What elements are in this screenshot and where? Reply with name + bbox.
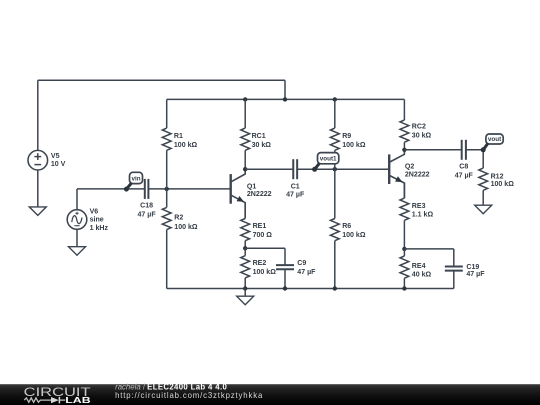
node junction VCC/RC1	[243, 97, 247, 101]
node junction RE1/RE2/C9	[243, 246, 247, 250]
ground below V5	[29, 207, 46, 216]
node flag vout	[481, 134, 503, 152]
svg-text:RC1: RC1	[252, 133, 266, 140]
svg-text:RE2: RE2	[253, 260, 267, 267]
node junction vout/R12	[481, 148, 485, 152]
node junction rail/RE4	[402, 286, 406, 290]
wire RE3 node to C19	[404, 248, 453, 250]
label V5 value	[51, 153, 66, 168]
svg-text:R2: R2	[174, 215, 183, 222]
branding bar	[0, 384, 540, 405]
svg-text:R9: R9	[342, 133, 351, 140]
wire C9 top lead	[284, 248, 286, 265]
resistor RC1	[241, 99, 250, 169]
svg-text:100 kΩ: 100 kΩ	[174, 224, 198, 231]
logo resistor zigzag	[24, 398, 51, 402]
node flag vout1	[312, 153, 339, 172]
svg-text:R1: R1	[174, 133, 183, 140]
svg-text:sine: sine	[90, 217, 104, 224]
svg-text:700 Ω: 700 Ω	[253, 232, 273, 239]
svg-text:47 µF: 47 µF	[297, 269, 316, 276]
wire bottom ground rail	[167, 288, 454, 290]
node junction R9/R6	[333, 167, 337, 171]
svg-text:RE4: RE4	[412, 263, 426, 270]
voltage source V5	[28, 150, 48, 170]
svg-text:V6: V6	[90, 208, 99, 215]
svg-text:30 kΩ: 30 kΩ	[412, 133, 432, 140]
svg-text:Q1: Q1	[247, 184, 256, 191]
wire top rail from V5 to drop	[38, 79, 285, 81]
resistor RC2	[400, 99, 409, 149]
svg-text:2N2222: 2N2222	[405, 172, 430, 179]
capacitor C9	[276, 265, 294, 269]
svg-text:100 kΩ: 100 kΩ	[491, 181, 515, 188]
resistor R12	[479, 150, 488, 205]
svg-text:vout1: vout1	[320, 156, 337, 163]
label RE3 value	[412, 203, 434, 219]
transistor Q1	[231, 169, 246, 218]
resistor R6	[330, 169, 339, 288]
credit line 1	[115, 382, 227, 391]
svg-text:100 kΩ: 100 kΩ	[253, 269, 277, 276]
resistor R2	[162, 189, 171, 289]
svg-text:V5: V5	[51, 153, 60, 160]
svg-text:RC2: RC2	[412, 124, 426, 131]
node junction rail/R6	[333, 286, 337, 290]
wire Q1 collector to C1	[245, 168, 293, 170]
ground main	[237, 296, 254, 305]
node junction RE3/RE4/C19	[402, 247, 406, 251]
label RC1 value	[252, 133, 272, 149]
node junction rail/C9	[283, 286, 287, 290]
node junction vin/R1/R2	[165, 187, 169, 191]
resistor RE2	[241, 248, 250, 288]
label R6 value	[342, 223, 366, 239]
wire C19 to ground rail	[453, 271, 455, 289]
wire top rail drop to VCC rail	[284, 80, 286, 99]
svg-text:vin: vin	[131, 175, 140, 182]
credit line 2	[115, 391, 263, 400]
label C8 value	[455, 164, 474, 180]
ground below V6	[69, 247, 86, 256]
wire C9 to ground rail	[284, 269, 286, 288]
resistor RE4	[400, 249, 409, 289]
voltage source V6	[67, 210, 87, 230]
svg-text:C9: C9	[297, 260, 306, 267]
node junction VCC/drop	[283, 97, 287, 101]
wire VCC rail	[167, 98, 405, 100]
svg-text:Q2: Q2	[405, 163, 414, 170]
svg-text:10 V: 10 V	[51, 161, 66, 168]
label C9 value	[297, 260, 316, 276]
node junction VCC/R9	[333, 97, 337, 101]
wire V5 to top rail	[37, 80, 39, 150]
wire V6 to ground	[76, 229, 78, 247]
label C18 value	[138, 202, 157, 218]
svg-text:C8: C8	[459, 164, 468, 171]
wire rail to main ground	[244, 289, 246, 297]
svg-text:C19: C19	[466, 264, 479, 271]
node junction rail/RE2	[243, 286, 247, 290]
logo LAB	[65, 396, 91, 405]
svg-text:100 kΩ: 100 kΩ	[342, 232, 366, 239]
label RE1 value	[253, 223, 273, 239]
svg-text:100 kΩ: 100 kΩ	[174, 142, 198, 149]
label R9 value	[342, 133, 366, 149]
label Q1 value	[247, 184, 272, 198]
svg-text:RE3: RE3	[412, 203, 426, 210]
wire C8 to vout node	[466, 149, 483, 151]
resistor R1	[162, 99, 171, 188]
label C1 value	[286, 184, 305, 199]
capacitor C1	[293, 159, 297, 179]
wire RE1 node to C9	[245, 247, 285, 249]
label R1 value	[174, 133, 198, 149]
svg-text:RE1: RE1	[253, 223, 267, 230]
wire C1 to Q2 base	[297, 168, 389, 170]
svg-text:http://circuitlab.com/c3ztkpzt: http://circuitlab.com/c3ztkpztyhkka	[115, 391, 263, 400]
label RC2 value	[412, 124, 432, 140]
label R12 value	[491, 174, 515, 189]
svg-text:C18: C18	[140, 202, 153, 209]
svg-text:47 µF: 47 µF	[286, 192, 305, 199]
wire V6 to input	[76, 189, 78, 210]
resistor R9	[330, 99, 339, 169]
label RE2 value	[253, 260, 277, 276]
capacitor C19	[445, 267, 463, 271]
svg-text:R6: R6	[342, 223, 351, 230]
svg-text:47 µF: 47 µF	[138, 211, 157, 218]
svg-text:100 kΩ: 100 kΩ	[342, 142, 366, 149]
node flag vin	[124, 172, 143, 191]
svg-text:47 µF: 47 µF	[455, 172, 474, 179]
wire V5 to ground	[37, 170, 39, 207]
svg-text:vout: vout	[488, 136, 502, 143]
logo diode	[51, 397, 65, 404]
svg-text:C1: C1	[291, 184, 300, 191]
resistor RE1	[241, 203, 250, 248]
svg-text:R12: R12	[491, 174, 504, 181]
label C19 value	[466, 264, 485, 278]
node junction Q1 collector	[243, 167, 247, 171]
wire V6 to C18	[77, 188, 145, 190]
wire Q2 collector to C8	[404, 149, 461, 151]
svg-text:1.1 kΩ: 1.1 kΩ	[412, 211, 434, 218]
label R2 value	[174, 215, 198, 231]
svg-text:1 kHz: 1 kHz	[90, 225, 109, 232]
svg-text:40 kΩ: 40 kΩ	[412, 271, 432, 278]
resistor RE3	[400, 183, 409, 249]
transistor Q2	[389, 150, 404, 198]
ground below R12	[475, 205, 492, 214]
svg-text:47 µF: 47 µF	[466, 271, 485, 278]
label RE4 value	[412, 263, 432, 278]
capacitor C8	[462, 140, 466, 160]
capacitor C18	[145, 179, 149, 199]
svg-text:2N2222: 2N2222	[247, 191, 272, 198]
label Q2 value	[405, 163, 430, 178]
svg-text:30 kΩ: 30 kΩ	[252, 142, 272, 149]
wire C18 to Q1 base	[148, 188, 230, 190]
label V6 value	[90, 208, 109, 231]
wire C19 top lead	[453, 249, 455, 267]
logo CIRCUIT	[24, 385, 92, 399]
svg-text:LAB: LAB	[65, 396, 91, 405]
node junction Q2 collector	[402, 148, 406, 152]
